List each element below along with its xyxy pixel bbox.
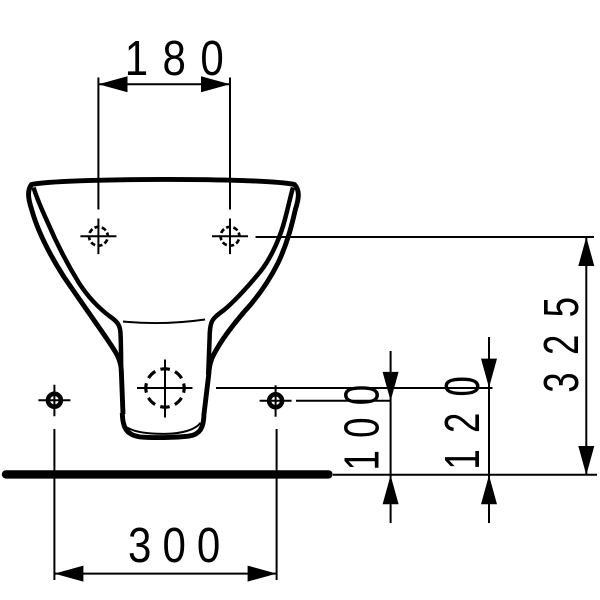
mounting holes reference line to 325 dim [256, 236, 595, 238]
dim 120 arrow top [481, 359, 497, 388]
mounting hole right dashed circle [221, 227, 240, 246]
dim 180 extension line right [229, 78, 231, 210]
dim 300 extension line left [53, 429, 55, 580]
dim 300 arrow left [54, 566, 83, 582]
outlet crosshair [137, 360, 193, 418]
floor line thick [6, 470, 329, 478]
floor anchor hole right ring [269, 394, 282, 407]
dim 180 extension line left [97, 78, 99, 210]
bidet rim curve right [208, 188, 293, 376]
bidet outer silhouette with top edge [29, 179, 299, 414]
mounting hole left crosshair [80, 219, 116, 255]
dim 180 arrow right [201, 76, 230, 92]
pedestal bottom outer [122, 413, 204, 438]
svg-text:180: 180 [125, 30, 239, 86]
floor anchor hole right crosshair [260, 385, 292, 417]
mounting hole right crosshair [212, 219, 248, 255]
pedestal top rim thin line [123, 320, 205, 324]
dim 120 dimension line [488, 337, 490, 523]
dim 300 extension line right [276, 429, 278, 580]
floor anchor hole left crosshair [38, 385, 70, 417]
dim 180 arrow left [98, 76, 127, 92]
dim 180 dimension line [98, 83, 230, 85]
dim 100 dimension line [390, 351, 392, 523]
outlet dashed circle [146, 369, 184, 407]
dim 325 arrow top [578, 237, 594, 266]
dim 120 reference line from outlet [216, 387, 493, 389]
mounting hole left dashed circle [89, 227, 108, 246]
svg-text:325: 325 [535, 280, 590, 393]
dim 100 arrow bottom [383, 475, 399, 504]
dim 300 dimension line [54, 573, 276, 575]
dim 120 arrow bottom [481, 475, 497, 504]
dim 325 dimension line [585, 237, 587, 475]
pedestal bottom inner thin line [127, 423, 200, 434]
floor reference thin line right [333, 474, 597, 476]
dim 300 arrow right [248, 566, 277, 582]
floor anchor hole left ring [48, 394, 61, 407]
dim 325 arrow bottom [578, 446, 594, 475]
svg-text:120: 120 [436, 360, 491, 470]
svg-text:300: 300 [128, 517, 231, 573]
bidet rim curve left [34, 188, 122, 374]
dim 100 arrow top [383, 372, 399, 401]
dim 100 reference line from right anchor hole [296, 400, 390, 402]
